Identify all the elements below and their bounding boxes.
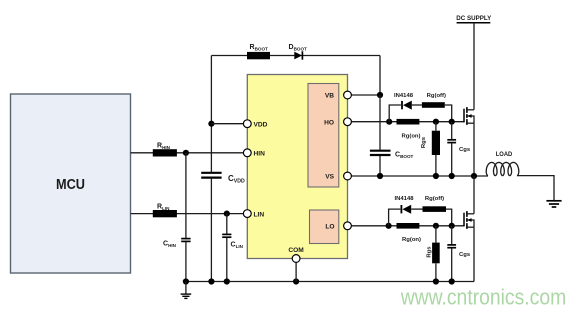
node Rgs bottom high	[433, 173, 439, 179]
capacitor CHIN	[185, 153, 187, 238]
node rail CHIN	[183, 278, 189, 284]
node CBOOT bottom	[377, 173, 383, 179]
mosfet Q1 high side	[463, 109, 465, 123]
node Cgs high	[449, 119, 455, 125]
VDD vertical wire	[210, 56, 212, 173]
wire low branch up	[389, 209, 401, 226]
MCU block U2	[11, 94, 131, 273]
pin circle VDD	[243, 120, 251, 128]
svg-text:Rg(off): Rg(off)	[427, 93, 446, 99]
svg-text:RBOOT: RBOOT	[250, 44, 269, 52]
svg-text:HIN: HIN	[254, 151, 266, 158]
wire load to ground	[517, 176, 554, 200]
wire LO	[348, 225, 465, 227]
capacitor CBOOT	[379, 95, 381, 150]
resistor Rg(off) low	[423, 206, 447, 212]
diode IN4148 low	[400, 205, 402, 213]
pin circle VB	[344, 91, 352, 99]
node Rgs high	[433, 119, 439, 125]
wire source to VS	[473, 123, 475, 176]
svg-text:Rgs: Rgs	[427, 246, 433, 258]
pin circle LO	[344, 222, 352, 230]
svg-text:VDD: VDD	[254, 121, 268, 128]
wire VDD to pin	[211, 123, 247, 125]
diode DBOOT	[294, 52, 302, 60]
pin circle VS	[344, 172, 352, 180]
svg-text:CHIN: CHIN	[163, 241, 177, 249]
svg-text:DC SUPPLY: DC SUPPLY	[456, 15, 491, 22]
svg-text:Rgs: Rgs	[421, 136, 427, 148]
node LO branch	[386, 223, 392, 229]
pin circle LIN	[243, 210, 251, 218]
node VB/boot	[377, 92, 383, 98]
resistor Rg(off) high	[422, 102, 445, 108]
pin circle COM	[292, 255, 300, 263]
diode IN4148 high	[401, 101, 403, 109]
node Cgs bottom high	[449, 173, 455, 179]
capacitor CLIN	[226, 214, 228, 234]
node rail Rgs low	[433, 278, 439, 284]
top boot wire	[211, 55, 380, 57]
svg-text:DBOOT: DBOOT	[289, 44, 308, 52]
svg-text:LO: LO	[325, 224, 334, 231]
wire drain low to VS	[473, 176, 475, 214]
wire boot vertical to VB	[379, 56, 381, 96]
high side block	[308, 84, 339, 188]
svg-text:Rg(on): Rg(on)	[402, 134, 421, 140]
svg-text:CVDD: CVDD	[228, 174, 245, 185]
node Cgs low	[449, 223, 455, 229]
node rail CLIN	[224, 278, 230, 284]
svg-text:LIN: LIN	[254, 211, 265, 218]
wire low branch down	[446, 209, 452, 226]
resistor Rg(on) low	[397, 223, 420, 229]
mosfet Q2 low side	[463, 213, 465, 227]
wire HO	[348, 121, 465, 123]
low side block	[310, 210, 339, 244]
wire VS rail	[348, 175, 489, 177]
svg-text:VB: VB	[325, 93, 334, 100]
wire HIN from MCU	[131, 152, 248, 154]
svg-text:RLIN: RLIN	[157, 203, 170, 211]
svg-text:MCU: MCU	[56, 177, 85, 193]
pin circle HO	[344, 118, 352, 126]
wire high branch down	[445, 105, 452, 122]
svg-text:RHIN: RHIN	[157, 143, 171, 151]
node rail Cgs low	[449, 278, 455, 284]
svg-text:www.cntronics.com: www.cntronics.com	[400, 285, 566, 310]
svg-text:HO: HO	[324, 119, 334, 126]
resistor RHIN	[153, 149, 177, 156]
ground load	[546, 200, 561, 202]
svg-text:Rg(off): Rg(off)	[425, 196, 444, 202]
svg-text:IN4148: IN4148	[394, 93, 414, 99]
wire LIN from MCU	[131, 213, 248, 215]
resistor Rgs low	[435, 226, 437, 243]
node HO branch	[386, 119, 392, 125]
wire COM to rail	[295, 263, 297, 282]
ground left	[185, 282, 187, 294]
wire source low to rail	[473, 227, 475, 281]
capacitor Cgs low	[451, 226, 453, 245]
inductor LOAD	[486, 162, 519, 175]
svg-text:Cgs: Cgs	[459, 147, 471, 153]
wire ground rail	[186, 281, 474, 283]
gate driver IC U1	[247, 75, 347, 259]
node VS phase	[471, 173, 477, 179]
svg-text:VS: VS	[325, 174, 334, 181]
node on LIN wire	[224, 211, 230, 217]
capacitor CVDD	[201, 172, 221, 174]
node Rgs low	[433, 223, 439, 229]
pin circle HIN	[243, 149, 251, 157]
svg-text:COM: COM	[288, 247, 304, 254]
svg-text:CBOOT: CBOOT	[395, 151, 414, 159]
svg-text:Rg(on): Rg(on)	[402, 237, 421, 243]
resistor Rg(on) high	[397, 119, 420, 125]
resistor Rgs high	[435, 122, 437, 131]
resistor RLIN	[153, 210, 177, 217]
node after RHIN	[183, 150, 189, 156]
wire VB pin to boot node	[348, 94, 381, 96]
wire DC supply to drain	[473, 23, 475, 110]
capacitor Cgs high	[451, 122, 453, 140]
wire high branch up	[389, 105, 401, 122]
node VDD junction	[208, 121, 214, 127]
resistor RBOOT	[247, 52, 270, 59]
svg-text:LOAD: LOAD	[496, 151, 513, 158]
node rail COM	[293, 278, 299, 284]
svg-text:Cgs: Cgs	[459, 252, 471, 258]
svg-text:IN4148: IN4148	[395, 196, 415, 202]
node rail CVDD	[208, 278, 214, 284]
svg-text:CLIN: CLIN	[231, 242, 244, 250]
